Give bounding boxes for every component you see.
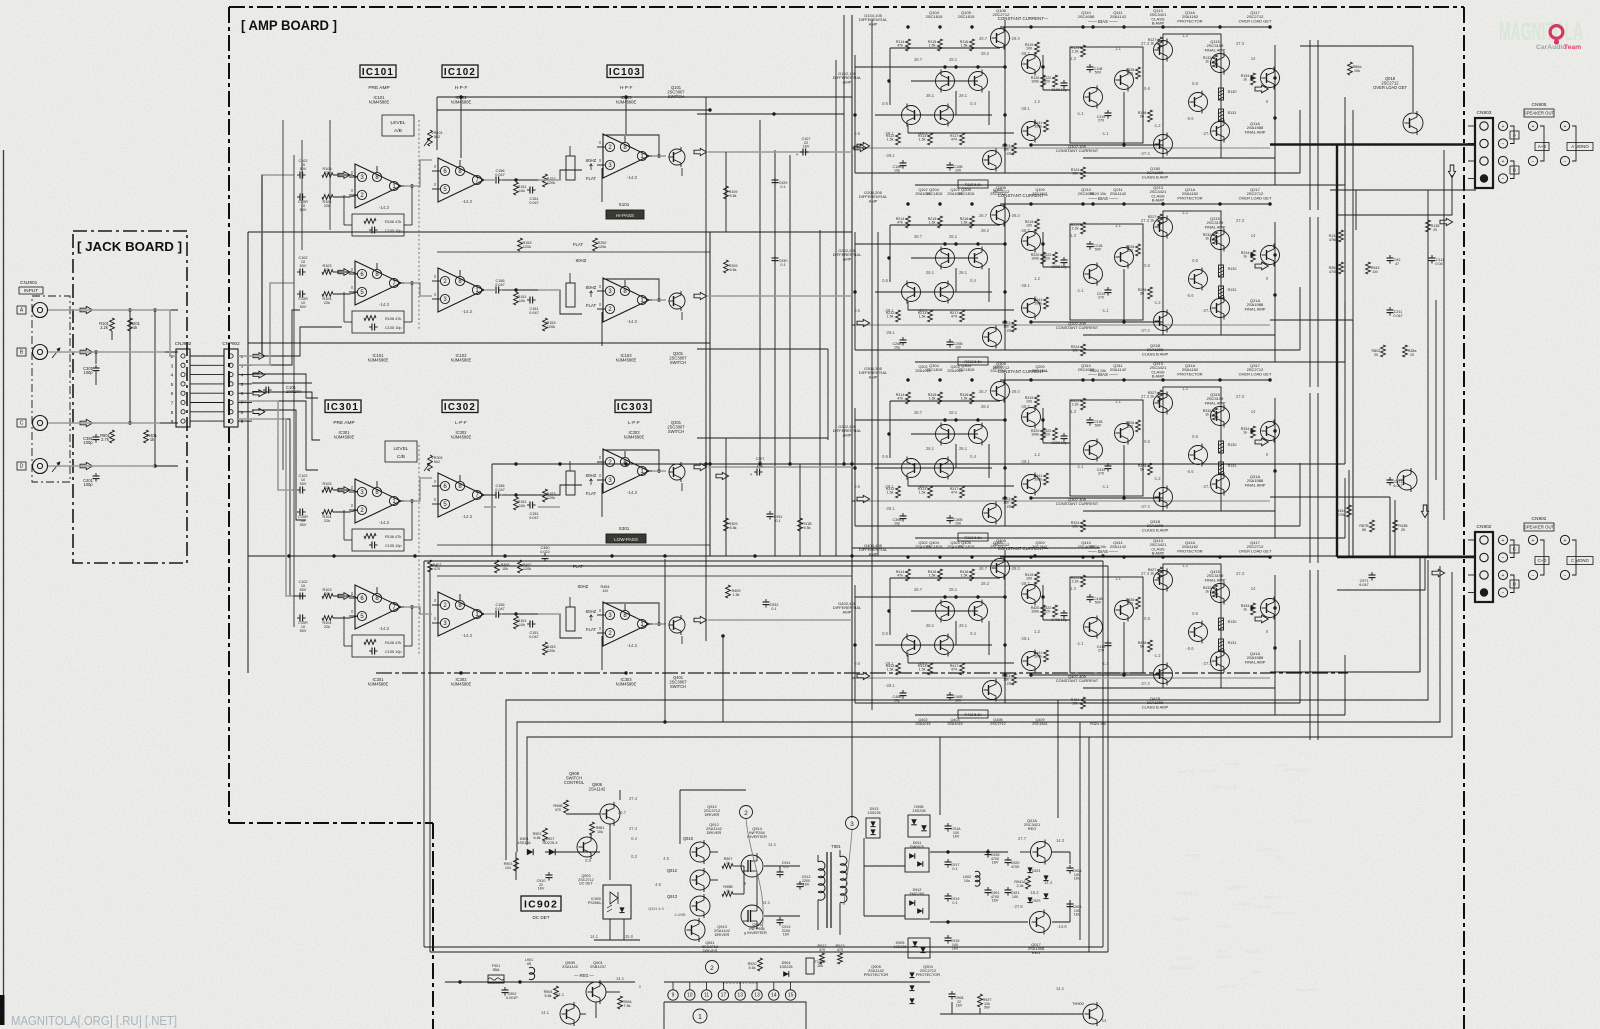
resistor R215 (928, 216, 943, 228)
node junction (1029, 496, 1032, 499)
node junction (954, 242, 957, 245)
node junction (938, 555, 941, 558)
text voltage (926, 93, 935, 98)
svg-text:16V: 16V (757, 465, 764, 469)
node junction (1273, 116, 1276, 119)
connector CN902 (1468, 524, 1493, 602)
wire block h5 (1031, 674, 1163, 676)
transistor Q017 REG (1030, 910, 1051, 935)
wire block h2 (875, 291, 992, 293)
svg-text:28.2: 28.2 (981, 581, 990, 586)
switch S301 label (606, 526, 646, 543)
node junction (1029, 378, 1032, 381)
scan bleed-through ghost text (1170, 762, 1315, 992)
text voltage (1141, 218, 1150, 223)
inductor L902 10u (963, 871, 980, 886)
svg-text:1k: 1k (1205, 60, 1209, 64)
svg-text:OVER LOAD GET: OVER LOAD GET (1239, 548, 1272, 553)
capacitor C extra 2 (893, 160, 907, 173)
svg-text:PROTECTOR: PROTECTOR (1177, 195, 1202, 200)
arrow right cn903b (1440, 218, 1453, 225)
wire output loop 2 (1163, 211, 1221, 335)
capacitor C912 2200 (797, 875, 811, 890)
wire block h4 (1000, 556, 1270, 558)
svg-text:PRE AMP: PRE AMP (368, 85, 389, 91)
transistor Q305 (969, 423, 988, 446)
node junction (1081, 378, 1084, 381)
svg-text:1.5k: 1.5k (919, 315, 926, 319)
svg-text:C/B: C/B (397, 454, 405, 460)
svg-text:1.5k: 1.5k (929, 221, 936, 225)
svg-text:2: 2 (241, 354, 244, 360)
svg-text:14.1: 14.1 (1056, 986, 1065, 991)
wire mid v800 (799, 464, 801, 556)
svg-text:0.4: 0.4 (970, 278, 976, 283)
callout curve 2 (746, 819, 763, 930)
transistor Q01B right (1397, 468, 1417, 492)
capacitor C908 22 (949, 991, 964, 1008)
svg-text:22k: 22k (324, 268, 330, 272)
resistor R201 1k (128, 318, 141, 331)
node junction (976, 418, 979, 421)
svg-text:2SB1237: 2SB1237 (590, 964, 606, 969)
text Q404 header (926, 540, 944, 549)
svg-text:10u: 10u (964, 879, 970, 883)
svg-text:CN902: CN902 (1477, 524, 1492, 530)
transistor Q405 (969, 600, 988, 623)
diode D904b (779, 961, 792, 977)
svg-text:50V: 50V (300, 588, 307, 592)
svg-text:100k: 100k (1034, 302, 1042, 306)
svg-text:1.5k: 1.5k (887, 138, 894, 142)
wire to switch a (516, 485, 582, 495)
connector CNP902 (222, 341, 243, 427)
wire block h4 (1000, 379, 1270, 381)
resistor emitter hatch 1 (1219, 88, 1224, 100)
text voltage (1070, 56, 1076, 61)
text voltage (1020, 283, 1030, 288)
text voltage (1182, 386, 1188, 391)
Q201 switch bottom label (669, 351, 687, 365)
wire block left vertical (854, 585, 856, 703)
text voltage (1020, 51, 1030, 56)
svg-text:22k: 22k (324, 171, 330, 175)
wire op3 feedback loop b (603, 603, 661, 626)
signal path D out (404, 607, 852, 624)
transistor Q308 (1022, 473, 1041, 496)
wire coupling a (484, 494, 516, 496)
wire input b1 (333, 596, 358, 598)
wire block v5 (955, 444, 957, 468)
jack board title (77, 240, 182, 254)
text voltage (1202, 131, 1212, 136)
svg-text:0.022: 0.022 (540, 550, 550, 554)
text Q113 header (1150, 8, 1168, 26)
svg-text:80HZ: 80HZ (586, 285, 597, 290)
text Q footer b (947, 718, 962, 726)
svg-text:1k: 1k (1243, 608, 1247, 612)
wire block right vertical (1274, 398, 1276, 538)
svg-text:C+D: C+D (1538, 558, 1547, 563)
transistor Q214 (1189, 268, 1208, 291)
node junction (1091, 378, 1094, 381)
text voltage (918, 131, 928, 136)
resistor R223 (1002, 320, 1017, 332)
node junction (1218, 378, 1221, 381)
amp board border top (229, 6, 1464, 8)
transistor Q111 (1115, 69, 1134, 92)
transistor Q211 (1115, 246, 1134, 269)
svg-text:16V: 16V (992, 899, 999, 903)
text Q211 header (1110, 187, 1127, 196)
svg-text:1.5k: 1.5k (919, 138, 926, 142)
node junction (1029, 202, 1032, 205)
svg-text:−: − (1502, 555, 1505, 561)
svg-text:A+B: A+B (1538, 144, 1546, 149)
capacitor C871 (1387, 477, 1403, 488)
node junction (1122, 143, 1125, 146)
capacitor C307 22 16V (750, 457, 765, 478)
node junction (1273, 253, 1276, 256)
transistor Q110 (1084, 86, 1103, 109)
transistor Q switch a (669, 462, 686, 482)
wire pin5 out (238, 383, 252, 385)
text Q110 header (1078, 10, 1096, 19)
resistor input b1 (322, 264, 333, 274)
wire row d bus (437, 575, 852, 577)
resistor R125 (1071, 45, 1086, 57)
wire block v9 (907, 478, 909, 486)
wire rail v2 (1317, 40, 1319, 210)
svg-text:2.2k: 2.2k (1072, 227, 1079, 231)
text 14.1 th (1056, 986, 1107, 1023)
capacitor C91A 100 16V (945, 823, 962, 839)
svg-text:1.2: 1.2 (1182, 210, 1188, 215)
amp board border left (228, 7, 230, 823)
wire block v10 (1042, 232, 1044, 267)
resistor R422 (1043, 605, 1058, 617)
wire block v6 (988, 268, 990, 302)
signal path A out (404, 152, 852, 186)
capacitor C902 0.001 (502, 987, 519, 1000)
level box A/B (382, 115, 414, 136)
signal path D (48, 419, 294, 596)
resistor R334 (1241, 426, 1256, 438)
svg-text:C41B 50V: C41B 50V (1185, 854, 1202, 858)
wire out b bus (708, 295, 852, 297)
text final amp label 2 (1245, 651, 1266, 664)
svg-text:FINAL AMP: FINAL AMP (1205, 47, 1226, 52)
resistor R109 5.6k (724, 186, 738, 199)
svg-text:B AMP: B AMP (1152, 198, 1165, 203)
text Q footer b (947, 188, 962, 196)
svg-text:14.1: 14.1 (590, 934, 599, 939)
text voltage (959, 93, 968, 98)
svg-text:PROTECTOR: PROTECTOR (1177, 548, 1202, 553)
svg-text:50V: 50V (300, 208, 307, 212)
resistor R428 (1138, 640, 1153, 652)
amp board border left lower (432, 823, 434, 1029)
wire cn903 area v1 (1355, 190, 1357, 230)
svg-text:-14.3: -14.3 (462, 309, 473, 314)
wire block v12 (1344, 302, 1346, 362)
op-amp Ua1 (349, 479, 407, 525)
svg-text:1k: 1k (1205, 413, 1209, 417)
svg-text:-27.3: -27.3 (1202, 308, 1212, 313)
text 80hz b (586, 609, 597, 632)
svg-text:DRIVER: DRIVER (715, 932, 730, 937)
diode D941 (1043, 875, 1048, 898)
svg-text:-27.3: -27.3 (1140, 504, 1150, 509)
text voltage (1115, 223, 1121, 228)
svg-text:5: 5 (241, 382, 244, 388)
svg-text:28.2: 28.2 (981, 228, 990, 233)
resistor shunt a (514, 178, 527, 195)
svg-text:0.047: 0.047 (495, 283, 505, 287)
svg-text:−: − (1502, 141, 1505, 147)
svg-text:B AMP: B AMP (1152, 374, 1165, 379)
text reg voltages (1013, 836, 1067, 929)
wire block h2 (875, 644, 992, 646)
svg-text:50V: 50V (1095, 71, 1102, 75)
transistor Q316 (1154, 486, 1173, 509)
capacitor C41B (1087, 594, 1104, 605)
transistor Q113 (1211, 52, 1230, 75)
feedback network a (352, 214, 404, 236)
text v141 150 (590, 934, 634, 939)
text constant current label (1056, 497, 1099, 506)
svg-text:220: 220 (1127, 602, 1133, 606)
resistor R441 (1034, 650, 1049, 662)
text Q footer a (915, 541, 930, 549)
transistor Q018 overload (1403, 111, 1423, 135)
svg-text:27.3: 27.3 (1236, 218, 1245, 223)
wire block h3 (911, 80, 978, 82)
wire opampa out (651, 471, 682, 491)
wire block h5 (1031, 144, 1163, 146)
svg-text:50V: 50V (300, 305, 307, 309)
text Q313 header (1150, 361, 1168, 379)
svg-text:80HZ: 80HZ (586, 473, 597, 478)
diode D904 1SS184 (517, 837, 533, 855)
capacitor C extra 1 (1097, 463, 1112, 476)
svg-text:-1.2: -1.2 (1153, 653, 1161, 658)
connector CNJ902 (171, 341, 192, 427)
svg-text:D: D (20, 464, 24, 470)
svg-text:8: 8 (171, 410, 174, 416)
wire feedback a (344, 184, 414, 225)
svg-text:FINAL AMP: FINAL AMP (1245, 129, 1266, 134)
text final amp label 2 (1245, 298, 1266, 311)
capacitor C extra 2 (893, 337, 907, 350)
node junction (976, 595, 979, 598)
svg-text:14.1: 14.1 (541, 1010, 550, 1015)
text constant current label (1056, 321, 1099, 330)
svg-text:CONTROL: CONTROL (564, 780, 585, 785)
resistor R224 (1071, 344, 1086, 356)
resistor R213 (918, 310, 933, 322)
node junction (1003, 595, 1006, 598)
text voltage (884, 484, 894, 489)
svg-text:CONSTANT CURRENT: CONSTANT CURRENT (1056, 148, 1099, 153)
svg-text:TH900: TH900 (1072, 1001, 1085, 1006)
svg-text:PROTECTOR: PROTECTOR (864, 972, 889, 977)
text voltage (882, 631, 888, 636)
node junction (1122, 496, 1125, 499)
svg-text:C MONO: C MONO (1571, 558, 1590, 563)
wire nested loop 2 (517, 566, 1440, 940)
capacitor C308 (1051, 433, 1067, 445)
text voltage (1070, 586, 1076, 591)
svg-text:0.6: 0.6 (882, 101, 888, 106)
svg-text:+: + (1532, 538, 1535, 544)
wire ic102 top drop2 (624, 95, 627, 134)
svg-text:28.1: 28.1 (926, 93, 935, 98)
svg-text:-28.7: -28.7 (1020, 581, 1030, 586)
wire op3 pin stub b (601, 636, 603, 670)
capacitor C301 100p (83, 365, 99, 375)
svg-text:2SC1815: 2SC1815 (958, 14, 976, 19)
arrow channel output (1255, 262, 1268, 270)
text voltage (1182, 210, 1188, 215)
svg-text:0.6: 0.6 (1144, 439, 1150, 444)
text voltage (1115, 46, 1121, 51)
wire loop right v1 (1102, 561, 1104, 947)
node junction (1003, 643, 1006, 646)
transistor TH900 (1072, 1001, 1103, 1026)
svg-text:NJM4580E: NJM4580E (616, 357, 637, 362)
resistor R413 (918, 663, 933, 675)
resistor R426 (1126, 597, 1141, 609)
svg-text:120k: 120k (547, 181, 555, 185)
svg-text:C923: C923 (1032, 869, 1041, 873)
svg-text:-1.1: -1.1 (1101, 484, 1109, 489)
resistor R222 (1043, 252, 1058, 264)
text voltage (854, 131, 860, 136)
text Q906 label (589, 782, 606, 791)
svg-text:1.3: 1.3 (1070, 233, 1076, 238)
wire coupling a (484, 179, 516, 181)
wire block h1 (855, 596, 1005, 598)
op-amp Ua1 (349, 164, 407, 210)
text Q914 inverter (747, 826, 767, 839)
svg-text:R106 47k: R106 47k (385, 317, 401, 321)
svg-text:-14.3: -14.3 (627, 319, 638, 324)
wire block v11 (1299, 463, 1301, 526)
svg-text:R424 10k: R424 10k (1090, 722, 1106, 726)
wire input b1 (333, 272, 358, 274)
capacitor C930 0.1 (772, 255, 788, 267)
wire block bottom bus2 (915, 714, 1345, 716)
wire pin4 out (238, 374, 252, 376)
resistor R327 (1148, 390, 1163, 402)
wire channel feed (852, 324, 855, 326)
svg-text:-0.6: -0.6 (1186, 116, 1194, 121)
capacitor coupling b (493, 603, 505, 618)
svg-text:IC902: IC902 (524, 898, 558, 910)
node junction (1003, 65, 1006, 68)
text Q footer d (1032, 541, 1047, 549)
text protector header (1177, 187, 1202, 200)
svg-text:NJM4580E: NJM4580E (451, 357, 472, 362)
svg-text:LEVEL: LEVEL (394, 446, 409, 452)
resistor R227 (1148, 214, 1163, 226)
text voltage (1070, 233, 1076, 238)
svg-text:2: 2 (171, 354, 174, 360)
svg-text:9: 9 (672, 993, 675, 999)
svg-text:-0.6: -0.6 (1186, 469, 1194, 474)
svg-text:4.6: 4.6 (663, 856, 669, 861)
svg-text:2SA1162: 2SA1162 (1237, 902, 1252, 906)
wire block bottom bus (855, 172, 1300, 174)
wire right drop (1412, 46, 1414, 112)
capacitor C extra 1 (1097, 640, 1112, 653)
capacitor C extra 1 (1097, 287, 1112, 300)
svg-text:-28.1: -28.1 (884, 661, 894, 666)
capacitor C910 22 (537, 872, 553, 891)
resistor hatch labels (1228, 443, 1237, 468)
resistor R320 (1031, 428, 1046, 440)
svg-text:0.4: 0.4 (970, 101, 976, 106)
capacitor coupling a (493, 484, 505, 499)
transistor Q411 (1115, 599, 1134, 622)
resistor R434 470k (1337, 505, 1352, 517)
text pin values (639, 980, 758, 989)
op-amp Ub1 (349, 261, 407, 307)
text Q311 header (1110, 363, 1127, 372)
resistor R423 (1002, 673, 1017, 685)
wire psu opto (594, 919, 640, 940)
text voltage (1070, 409, 1076, 414)
wire heavy out cn902 (1337, 556, 1476, 558)
text voltage (1236, 571, 1245, 576)
svg-text:-27.8: -27.8 (1013, 904, 1023, 909)
wire block v8 (889, 225, 891, 282)
svg-text:OVER LOAD GET: OVER LOAD GET (1239, 371, 1272, 376)
transistor Q208 (1022, 297, 1041, 320)
text differential amp label (859, 13, 888, 26)
node junction (1029, 673, 1032, 676)
diode D907 RD2JS (542, 837, 557, 855)
arrow out a (694, 463, 707, 470)
svg-text:470k: 470k (1329, 270, 1337, 274)
svg-text:AMP: AMP (869, 551, 878, 556)
text Q905 protector (864, 964, 889, 977)
svg-text:0.1: 0.1 (780, 263, 785, 267)
resistor R152 row1 (518, 238, 532, 251)
micro controller body (664, 1002, 806, 1029)
svg-text:15k: 15k (817, 964, 823, 968)
resistor R209 5.6k (724, 260, 738, 273)
svg-text:1SS226: 1SS226 (867, 811, 880, 815)
svg-text:FINAL AMP: FINAL AMP (1205, 224, 1226, 229)
svg-text:R131: R131 (1228, 464, 1237, 468)
svg-text:DC DET: DC DET (579, 882, 594, 886)
transistor Q912 driver (690, 868, 710, 892)
resistor R116 (960, 39, 975, 51)
resistor R912 (820, 953, 843, 964)
resistor T190Z 15k (806, 958, 826, 974)
node junction (1003, 673, 1006, 676)
svg-text:4: 4 (171, 373, 174, 379)
svg-text:-27.3: -27.3 (1140, 151, 1150, 156)
wire q910 bus (680, 790, 746, 844)
svg-text:2SC1815: 2SC1815 (958, 367, 976, 372)
svg-text:T901: T901 (831, 844, 841, 849)
wire op3 pin stub a (601, 483, 603, 517)
wire out ch2 (1270, 320, 1353, 556)
capacitor C928 4700 (985, 849, 1000, 865)
